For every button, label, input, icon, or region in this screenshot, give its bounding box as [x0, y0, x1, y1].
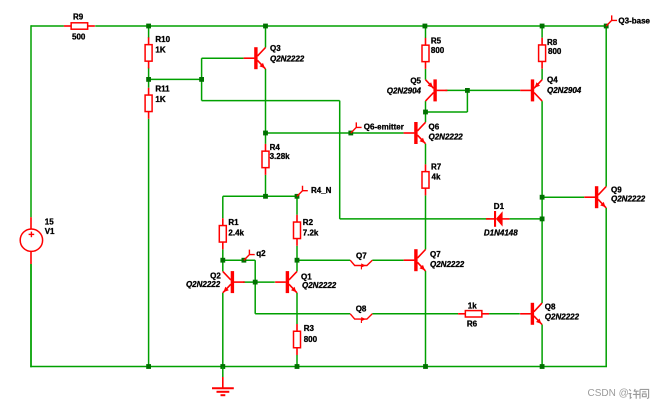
svg-text:Q2N2222: Q2N2222: [186, 280, 221, 289]
resistor R6: [458, 311, 489, 317]
value 2.4k: [228, 229, 244, 238]
junction q2 probe: [242, 258, 247, 263]
label Q4: [547, 76, 558, 85]
wire R5 bottom: [425, 69, 427, 80]
value 7.2k: [303, 229, 319, 238]
wire Q8 row left: [255, 313, 350, 315]
svg-text:R8: R8: [547, 38, 558, 47]
svg-text:CSDN @: CSDN @: [588, 388, 629, 399]
model D1N4148: [484, 228, 518, 237]
svg-text:15: 15: [45, 218, 54, 227]
label Q8: [545, 302, 556, 311]
junction Q3 emitter R4: [263, 131, 268, 136]
junction Q5 tie: [423, 110, 428, 115]
junction top R8: [540, 24, 545, 29]
svg-text:R4: R4: [270, 143, 281, 152]
transistor Q3: [244, 47, 266, 69]
svg-text:Q8: Q8: [356, 305, 367, 314]
wire Q6 emitter down: [425, 144, 427, 165]
model Q2N2222 Q9: [611, 195, 646, 204]
svg-text:R5: R5: [431, 36, 442, 45]
junction R2 bottom: [295, 258, 300, 263]
svg-text:R9: R9: [73, 13, 84, 22]
model Q2N2222 Q2: [186, 280, 221, 289]
junction base node: [253, 280, 258, 285]
wire right rail upper: [605, 26, 607, 187]
value 1k R6: [468, 302, 477, 311]
wire Q9 base row: [542, 196, 584, 198]
wire right rail lower: [605, 208, 607, 367]
svg-text:2.4k: 2.4k: [228, 229, 244, 238]
label Q1: [301, 273, 312, 282]
wire R10R11 node to node A: [149, 78, 202, 80]
wire R7 bottom: [425, 195, 427, 249]
svg-text:Q3: Q3: [270, 44, 281, 53]
junction Q4 base tie: [465, 88, 470, 93]
wire Q6 collector up: [425, 112, 427, 122]
watermark: [588, 388, 649, 399]
wire R3 bottom: [296, 355, 298, 367]
wire feedback horizontal: [202, 100, 340, 102]
wire R1 top: [222, 196, 224, 218]
wire R8 bottom: [541, 69, 543, 80]
junction top right corner: [604, 24, 609, 29]
label flag Q7: [356, 251, 367, 260]
model Q2N2222 Q3: [270, 54, 305, 63]
svg-text:7.2k: 7.2k: [303, 229, 319, 238]
wire Q5-Q4 base link: [445, 89, 520, 91]
junction R4_N: [295, 194, 300, 199]
svg-text:R1: R1: [228, 218, 239, 227]
label R10: [155, 35, 170, 44]
wire Q1 emitter down: [296, 293, 298, 324]
wire R10-R11 link: [148, 68, 150, 88]
wire left rail upper: [30, 25, 32, 217]
wire Q7 emitter down: [425, 271, 427, 367]
label R5: [431, 36, 442, 45]
svg-text:R6: R6: [467, 320, 478, 329]
label Q6: [429, 123, 440, 132]
wire V1 bottom link: [30, 264, 32, 367]
wire Q6 base row: [266, 132, 404, 134]
svg-text:500: 500: [72, 32, 86, 41]
wire R2 top: [296, 196, 298, 215]
svg-text:Q7: Q7: [430, 250, 441, 259]
probe q2: [244, 250, 255, 261]
value 800 R5: [431, 46, 445, 55]
value 500: [72, 32, 86, 41]
svg-text:1k: 1k: [468, 302, 477, 311]
junction node A: [199, 77, 204, 82]
diode D1: [486, 211, 510, 227]
svg-text:Q8: Q8: [545, 302, 556, 311]
svg-text:800: 800: [431, 46, 445, 55]
value 800 R8: [548, 47, 562, 56]
wire R4N row: [223, 195, 297, 197]
junction R1 bottom: [220, 258, 225, 263]
transistor Q6: [404, 122, 426, 144]
junction top R5: [423, 24, 428, 29]
junction R11 bottom: [146, 364, 151, 369]
label Q9: [611, 185, 622, 194]
wire R10 top: [148, 26, 150, 38]
svg-text:Q6: Q6: [429, 123, 440, 132]
junction ground: [220, 364, 225, 369]
label R4_N: [311, 186, 332, 195]
value 1K R11: [155, 95, 165, 104]
svg-text:Q7: Q7: [356, 251, 367, 260]
wire Q2-Q1 base link: [243, 281, 275, 283]
resistor R2: [294, 215, 301, 246]
wire Q5 collector down: [425, 101, 427, 112]
svg-text:Q2N2222: Q2N2222: [545, 312, 580, 321]
wire D1 row right: [510, 218, 542, 220]
label R6: [467, 320, 478, 329]
wire R4 top: [265, 133, 267, 144]
svg-text:Q2N2222: Q2N2222: [430, 260, 465, 269]
transistor Q4: [520, 79, 542, 101]
wire Q7 base row left: [297, 259, 350, 261]
svg-text:D1: D1: [494, 202, 505, 211]
label V1: [45, 227, 55, 236]
wire Q1 collector up: [296, 260, 298, 271]
transistor Q9: [584, 186, 606, 208]
resistor R5: [422, 38, 429, 69]
model Q2N2904 Q4: [547, 86, 582, 95]
junction Q7 emitter: [423, 364, 428, 369]
junction top R10: [146, 24, 151, 29]
label Q7: [430, 250, 441, 259]
probe R4_N: [297, 186, 308, 197]
net flag Q7: [350, 260, 372, 269]
probe Q3-base: [606, 15, 617, 26]
wire Q2 collector up: [222, 260, 224, 271]
label R7: [431, 163, 442, 172]
transistor Q1: [275, 271, 297, 293]
wire Q7 base row right: [372, 259, 403, 261]
wire Q2 emitter down: [222, 293, 224, 367]
transistor Q8: [520, 303, 542, 325]
label R2: [303, 218, 314, 227]
ground: [212, 367, 234, 396]
model Q2N2222 Q1: [302, 281, 337, 290]
value 1K R10: [155, 46, 165, 55]
label Q3: [270, 44, 281, 53]
svg-text:Q4: Q4: [547, 76, 558, 85]
model Q2N2222 Q7: [430, 260, 465, 269]
label R4: [270, 143, 281, 152]
svg-text:3.28k: 3.28k: [270, 152, 291, 161]
wire base-node vertical: [254, 260, 256, 314]
value 800 R3: [304, 335, 318, 344]
wire top rail: [31, 25, 606, 27]
junction top Q3: [263, 24, 268, 29]
model Q2N2222 Q6: [429, 132, 464, 141]
svg-text:R7: R7: [431, 163, 442, 172]
svg-text:Q2N2222: Q2N2222: [429, 132, 464, 141]
wire D1 row left: [340, 218, 490, 220]
transistor Q5: [426, 79, 448, 101]
junction R3 bottom: [295, 364, 300, 369]
label R3: [304, 324, 315, 333]
resistor R9: [64, 23, 95, 29]
label Q2: [210, 272, 221, 281]
label Q6-emitter: [364, 123, 404, 132]
wire Q5 tie vertical: [466, 90, 468, 112]
wire Q5 tie horizontal: [426, 111, 468, 113]
svg-text:Q9: Q9: [611, 185, 622, 194]
svg-text:Q2N2222: Q2N2222: [270, 54, 305, 63]
svg-text:q2: q2: [256, 249, 266, 258]
wire R2 bottom: [296, 246, 298, 260]
svg-text:V1: V1: [45, 227, 55, 236]
wire Q8 row mid: [372, 313, 458, 315]
svg-text:Q6-emitter: Q6-emitter: [364, 123, 404, 132]
junction D1 cathode: [540, 217, 545, 222]
wire R8 top: [541, 26, 543, 38]
transistor Q7: [404, 249, 426, 271]
label D1: [494, 202, 505, 211]
svg-text:1K: 1K: [155, 95, 165, 104]
label 15: [45, 218, 54, 227]
wire R4 bottom: [265, 175, 267, 196]
wire left rail lower: [30, 264, 32, 367]
junction R4 bottom: [263, 194, 268, 199]
label R1: [228, 218, 239, 227]
value 4k: [432, 173, 441, 182]
net flag Q8: [350, 314, 372, 323]
resistor R10: [145, 37, 152, 68]
probe Q6-emitter: [351, 122, 362, 133]
wire Q3 emitter down: [265, 69, 267, 133]
svg-text:800: 800: [548, 47, 562, 56]
svg-text:R2: R2: [303, 218, 314, 227]
svg-text:Q5: Q5: [410, 77, 421, 86]
model Q2N2222 Q8: [545, 312, 580, 321]
wire q2 row: [223, 259, 255, 261]
junction Q6-emitter probe: [348, 131, 353, 136]
label R8: [547, 38, 558, 47]
voltage source V1: [20, 217, 42, 264]
wire Q8 emitter down: [541, 325, 543, 367]
wire Q3 base: [202, 57, 244, 59]
resistor R1: [219, 218, 226, 249]
label R9: [73, 13, 84, 22]
model Q2N2904 Q5: [387, 86, 422, 95]
resistor R4: [262, 144, 269, 175]
svg-text:R4_N: R4_N: [311, 186, 332, 195]
resistor R11: [145, 88, 152, 119]
svg-text:Q2N2904: Q2N2904: [387, 86, 422, 95]
label R11: [155, 84, 170, 93]
junction Q8 emitter: [540, 364, 545, 369]
svg-text:Q2N2222: Q2N2222: [611, 195, 646, 204]
svg-text:R11: R11: [155, 84, 170, 93]
svg-text:D1N4148: D1N4148: [484, 228, 518, 237]
svg-text:1K: 1K: [155, 46, 165, 55]
label q2: [256, 249, 266, 258]
svg-text:Q2N2222: Q2N2222: [302, 281, 337, 290]
junction Q9 base: [540, 195, 545, 200]
wire feedback vertical: [339, 101, 341, 219]
svg-text:R3: R3: [304, 324, 315, 333]
wire R11 bottom: [148, 119, 150, 367]
label Q5: [410, 77, 421, 86]
svg-text:4k: 4k: [432, 173, 441, 182]
resistor R8: [539, 38, 546, 69]
label flag Q8: [356, 305, 367, 314]
value 3.28k: [270, 152, 291, 161]
label Q3-base: [618, 16, 650, 25]
node A vertical: [201, 58, 203, 100]
svg-text:R10: R10: [155, 35, 170, 44]
junction R10-R11: [146, 77, 151, 82]
transistor Q2: [223, 271, 245, 293]
wire R5 top: [425, 26, 427, 38]
wire bottom rail: [30, 366, 607, 368]
wire Q8 row right: [489, 313, 520, 315]
svg-text:Q3-base: Q3-base: [618, 16, 650, 25]
resistor R7: [422, 164, 429, 195]
svg-text:Q2N2904: Q2N2904: [547, 86, 582, 95]
svg-text:800: 800: [304, 335, 318, 344]
wire Q3 collector up: [265, 26, 267, 48]
resistor R3: [294, 324, 301, 355]
wire Q4 collector down: [541, 101, 543, 303]
wire R1 bottom: [222, 249, 224, 260]
